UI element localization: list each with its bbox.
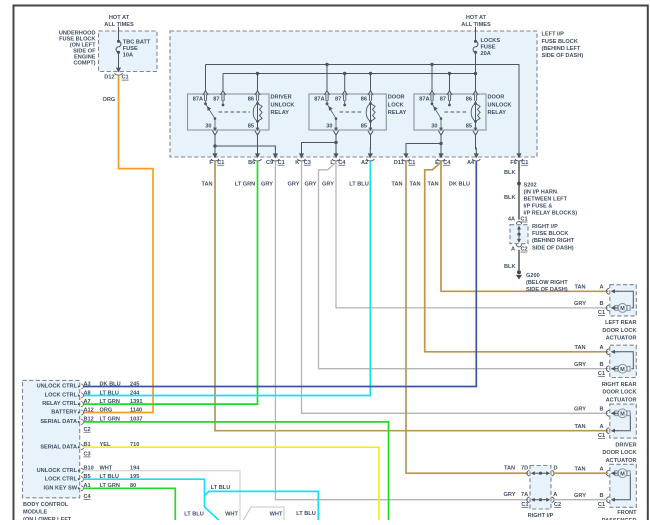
svg-text:C9: C9 [266,160,273,166]
svg-text:ORG: ORG [103,97,116,103]
svg-text:F: F [209,160,213,166]
wire YEL 710 (BCM B1, serial data) [83,447,379,520]
svg-text:BODY CONTROL: BODY CONTROL [23,502,69,508]
svg-text:GRY: GRY [288,181,300,187]
pin K at left I/P fuse block [295,147,311,165]
svg-text:RIGHT REAR: RIGHT REAR [602,382,637,388]
pin A4 at left I/P fuse block [467,147,480,165]
wire GRY (right I/P A to front passenger B) [553,499,609,501]
svg-text:A: A [511,247,515,253]
svg-text:30: 30 [205,124,211,130]
svg-text:WHT: WHT [270,512,283,518]
wire bus1 to relay1 87A [205,65,207,91]
svg-text:SIDE OF DASH): SIDE OF DASH) [542,53,584,59]
svg-text:MODULE: MODULE [23,510,48,516]
wire TAN (pin D11 to right I/P 7D) [406,161,528,473]
svg-text:M: M [620,471,625,477]
svg-text:HOT AT: HOT AT [466,15,487,21]
junction bus2 x=449.5 [448,72,451,75]
wire LT GRN 80 (BCM A1, ign key sw) [83,488,175,520]
svg-text:COMPT): COMPT) [73,61,95,67]
wire BLK (F6 to S202) [518,161,520,219]
splice S202 [517,182,521,186]
svg-text:GRY: GRY [574,493,586,499]
wire GRY (pin C9 to right I/P 7A) [275,161,528,499]
svg-text:A7: A7 [84,399,91,405]
svg-text:(BEHIND RIGHT: (BEHIND RIGHT [532,238,575,244]
wire TAN (pin E to right rear actuator A) [425,162,609,352]
wire relay3 30 to pins D11 and E [440,134,442,150]
svg-text:86: 86 [466,97,472,103]
svg-text:FUSE BLOCK: FUSE BLOCK [532,231,568,237]
svg-text:85: 85 [361,124,367,130]
svg-text:85: 85 [248,124,254,130]
pin A2 at left I/P fuse block [361,147,374,165]
svg-text:BETWEEN LEFT: BETWEEN LEFT [524,196,568,202]
wire GRY (pin L to left rear actuator B) [336,161,608,308]
wire TAN (pin E to left rear actuator A) [441,161,608,291]
wire DK BLU 245 (pin A4 to BCM A3) [83,161,476,386]
svg-text:TBC BATT: TBC BATT [123,39,151,45]
svg-text:ACTUATOR: ACTUATOR [606,458,637,464]
svg-text:I/P FUSE &: I/P FUSE & [524,203,553,209]
svg-text:244: 244 [130,390,140,396]
svg-text:A: A [599,466,603,472]
bus B+ from LOCKS fuse (feeds 87/86) [223,73,476,75]
wire LT GRN 1037 (BCM B12, serial data) [83,422,389,520]
front passenger door lock actuator [574,464,637,524]
svg-text:HOT AT: HOT AT [109,15,130,21]
svg-text:BLK: BLK [504,170,516,176]
svg-text:RELAY: RELAY [271,110,290,116]
wire relay3 85 to pin A4 [475,134,477,150]
wire TAN (right I/P D to front passenger A) [553,472,609,474]
junction bus2 x=370.5 [369,72,372,75]
ground G200 [516,270,568,293]
svg-text:LT BLU: LT BLU [100,390,119,396]
right rear door lock actuator [574,345,636,403]
svg-text:A: A [553,492,557,498]
svg-text:87: 87 [213,97,219,103]
svg-text:ACTUATOR: ACTUATOR [606,397,637,403]
svg-text:DOOR LOCK: DOOR LOCK [602,328,636,334]
wire bus1 to relay2 87A [326,65,328,91]
svg-text:ORG: ORG [100,407,113,413]
svg-text:DK BLU: DK BLU [449,181,470,187]
svg-text:UNLOCK CTRL: UNLOCK CTRL [37,468,78,474]
svg-text:1140: 1140 [130,407,142,413]
relay door unlock relay [414,91,511,136]
wire bus2 to relay2 87 [344,74,346,91]
svg-text:(BELOW RIGHT: (BELOW RIGHT [526,280,568,286]
right I/P fuse block (lower pass-through) [504,465,562,519]
svg-text:S202: S202 [524,182,537,188]
pin F6 at left I/P fuse block [510,147,528,165]
svg-text:M: M [620,306,625,312]
svg-text:TAN: TAN [574,345,585,351]
svg-text:LT GRN: LT GRN [100,399,120,405]
svg-text:LT BLU: LT BLU [184,512,203,518]
svg-text:B: B [599,301,603,307]
svg-text:UNLOCK: UNLOCK [488,102,512,108]
fuse TBC BATT FUSE 10A [116,31,151,64]
svg-text:TAN: TAN [574,424,585,430]
node HOT AT ALL TIMES (right) [461,15,491,31]
underhood fuse block [59,31,157,72]
svg-text:WHT: WHT [225,512,238,518]
wire relay1 85 to pin B6 [257,134,259,150]
svg-text:LT BLU: LT BLU [349,181,368,187]
svg-text:M: M [620,411,625,417]
wire bus2 to relay1 86 [257,74,259,91]
svg-text:DRIVER: DRIVER [271,95,292,101]
svg-text:30: 30 [431,124,437,130]
svg-text:TAN: TAN [427,181,438,187]
svg-text:SIDE OF DASH): SIDE OF DASH) [532,245,574,251]
svg-text:87: 87 [440,97,446,103]
svg-text:86: 86 [248,97,254,103]
svg-text:RELAY: RELAY [488,110,507,116]
svg-text:D12: D12 [104,75,114,81]
svg-text:87A: 87A [419,97,429,103]
svg-text:A2: A2 [361,160,368,166]
svg-text:85: 85 [466,124,472,130]
wire TAN (pin F to driver door lock actuator A) [215,161,608,430]
pin E at left I/P fuse block [435,147,451,165]
svg-text:ALL TIMES: ALL TIMES [461,22,491,28]
node HOT AT ALL TIMES (left) [104,15,134,31]
svg-text:245: 245 [130,381,139,387]
pin F at left I/P fuse block [209,147,224,165]
svg-text:B: B [599,493,603,499]
svg-text:LT BLU: LT BLU [211,485,230,491]
pin B6 at left I/P fuse block [248,147,261,165]
svg-text:G200: G200 [526,273,540,279]
wire bus1 to relay3 87A [431,65,433,91]
svg-text:SERIAL DATA: SERIAL DATA [40,444,77,450]
svg-text:RIGHT I/P: RIGHT I/P [532,224,558,230]
wire relay1 30 to pins F and C9 [214,134,216,150]
svg-text:ALL TIMES: ALL TIMES [104,22,134,28]
wire bus2 to relay1 87 [222,74,224,91]
svg-text:LOCKS: LOCKS [481,38,501,44]
junction bus2 x=344.7 [343,72,346,75]
svg-text:FUSE: FUSE [123,46,138,52]
svg-text:RELAY: RELAY [388,110,407,116]
svg-text:LOCK CTRL: LOCK CTRL [45,393,78,399]
svg-text:7D: 7D [521,465,528,471]
svg-text:A: A [599,285,603,291]
svg-text:GRY: GRY [574,362,586,368]
svg-text:FUSE BLOCK: FUSE BLOCK [542,39,578,45]
svg-text:B: B [599,362,603,368]
wire WHT 194 (BCM B10, unlock ctrl) [83,471,240,520]
svg-text:GRY: GRY [261,181,273,187]
wire LT BLU 195 branch to passenger switch [205,491,319,520]
left rear door lock actuator [574,285,636,342]
svg-text:GRY: GRY [504,492,516,498]
pin C9 at left I/P fuse block [266,147,285,165]
wire bus2/fuse to relay3 86 [475,74,477,91]
svg-text:4A: 4A [508,217,515,223]
connector pin D12 C1 (underhood fuse block) [104,62,128,81]
svg-text:ACTUATOR: ACTUATOR [606,336,637,342]
svg-text:D11: D11 [394,160,404,166]
bus 87A contacts to F6 (ground bus) [206,65,520,150]
svg-text:A4: A4 [467,160,475,166]
svg-text:86: 86 [361,97,367,103]
relay door lock relay [309,91,407,136]
wire bus2 to relay2 86 [370,74,372,91]
svg-text:LOCK CTRL: LOCK CTRL [45,476,78,482]
svg-text:BATTERY: BATTERY [51,410,77,416]
body control module [23,380,143,523]
svg-text:TAN: TAN [574,466,585,472]
left I/P fuse block (relay box) [170,31,583,157]
svg-text:87A: 87A [193,97,203,103]
svg-text:TAN: TAN [391,181,402,187]
junction bus1/relay3 87A [430,63,433,66]
wire GRY (pin K to driver door lock actuator B) [302,161,609,413]
right I/P fuse block (upper pass-through) [510,221,575,251]
svg-text:UNLOCK CTRL: UNLOCK CTRL [37,384,78,390]
svg-text:A: A [599,345,603,351]
junction bus2 x=475.5 [474,72,477,75]
wire relay2 30 to pins K and L [335,134,337,150]
svg-text:DOOR: DOOR [388,95,405,101]
driver door lock actuator [574,404,636,464]
svg-text:GRY: GRY [574,407,586,413]
svg-text:20A: 20A [481,51,491,57]
wire GRY (pin L to right rear actuator B) [319,162,609,369]
svg-text:TAN: TAN [409,181,420,187]
wire BLK (right I/P to G200) [518,250,520,270]
junction bus2 x=257.5 [256,72,259,75]
svg-text:I/P RELAY BLOCKS): I/P RELAY BLOCKS) [524,210,578,216]
svg-text:SIDE OF DASH): SIDE OF DASH) [526,287,568,293]
svg-text:A12: A12 [84,407,94,413]
pin L at left I/P fuse block [330,147,346,165]
wire bus2 to relay3 87 [449,74,451,91]
svg-text:DRIVER: DRIVER [615,442,636,448]
svg-text:DOOR LOCK: DOOR LOCK [602,390,636,396]
svg-text:TAN: TAN [574,285,585,291]
svg-text:FRONT: FRONT [617,510,637,516]
wire LT BLU 195 (BCM B5, lock ctrl) [83,479,219,520]
fuse LOCKS FUSE 20A [473,31,500,74]
svg-text:SERIAL DATA: SERIAL DATA [40,419,77,425]
svg-text:A: A [599,424,603,430]
svg-text:FUSE: FUSE [481,44,496,50]
driver door lock switch housing (cut off) [244,507,285,520]
svg-text:M: M [620,367,625,373]
svg-text:GRY: GRY [322,181,334,187]
svg-text:BLK: BLK [504,195,516,201]
svg-text:LOCK: LOCK [388,102,404,108]
svg-text:LEFT I/P: LEFT I/P [542,32,565,38]
svg-text:K: K [295,160,299,166]
pin D11 at left I/P fuse block [394,147,416,165]
svg-text:LEFT REAR: LEFT REAR [605,320,636,326]
svg-text:(BEHIND LEFT: (BEHIND LEFT [542,46,581,52]
svg-text:RIGHT I/P: RIGHT I/P [528,513,554,519]
svg-text:A8: A8 [84,390,91,396]
svg-text:A3: A3 [84,381,91,387]
svg-text:87A: 87A [314,97,324,103]
svg-text:1391: 1391 [130,399,142,405]
svg-text:BLK: BLK [504,264,516,270]
relay driver unlock relay [188,91,295,136]
svg-text:LT GRN: LT GRN [235,181,255,187]
svg-text:DOOR: DOOR [488,95,505,101]
wire LT GRN 1391 (pin B6 to BCM A7) [83,161,258,404]
junction bus1/relay2 87A [325,63,328,66]
svg-text:UNLOCK: UNLOCK [271,102,295,108]
svg-text:D: D [554,465,558,471]
wire relay2 85 to pin A2 [370,134,372,150]
svg-text:87: 87 [335,97,341,103]
svg-text:10A: 10A [123,53,133,59]
wire LT BLU 244 (pin A2 to BCM A8) [83,161,370,395]
svg-text:F6: F6 [510,160,517,166]
svg-text:LT BLU: LT BLU [296,511,315,517]
svg-text:TAN: TAN [201,181,212,187]
svg-text:30: 30 [326,124,332,130]
svg-text:RELAY CTRL: RELAY CTRL [42,401,77,407]
svg-text:(IN I/P HARN.: (IN I/P HARN. [524,189,559,195]
svg-text:TAN: TAN [504,465,515,471]
svg-text:DK BLU: DK BLU [100,381,121,387]
svg-text:GRY: GRY [305,181,317,187]
svg-text:B6: B6 [248,160,255,166]
svg-text:7A: 7A [521,492,528,498]
svg-text:GRY: GRY [574,301,586,307]
svg-text:B: B [599,407,603,413]
svg-text:IGN KEY SW: IGN KEY SW [44,485,78,491]
svg-text:DOOR LOCK: DOOR LOCK [602,450,636,456]
wire ORG 1140 (fuse D12 to BCM A12) [83,76,153,413]
